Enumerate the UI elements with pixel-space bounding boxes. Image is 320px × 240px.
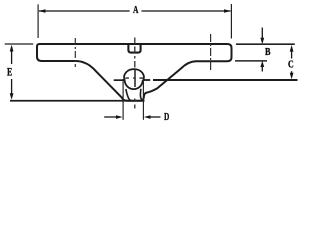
left seat stub <box>114 79 125 81</box>
bracket body outline <box>37 44 232 101</box>
dim A line left segment <box>39 10 130 12</box>
dim A arrow left <box>38 9 45 12</box>
saddle pocket arc under circle <box>125 80 143 89</box>
dim A arrow right <box>224 9 231 12</box>
dim D right tail with arrow (points left) <box>149 116 161 118</box>
dim D extension line right <box>142 80 144 120</box>
svg-text:A: A <box>133 4 139 16</box>
svg-text:D: D <box>164 111 169 123</box>
svg-text:C: C <box>288 60 294 71</box>
centerline hole left x75 <box>74 38 76 67</box>
dim D left tail with arrow (points right) <box>104 116 117 118</box>
svg-text:B: B <box>265 46 271 58</box>
dim A extension line right <box>230 4 232 39</box>
dim E lower segment with down arrow <box>11 79 13 96</box>
dim E top extension line <box>5 43 34 45</box>
horizontal centerline through bar <box>125 77 143 79</box>
dim B lower arrow (up) <box>261 64 263 72</box>
dim C lower arrow (down) <box>291 71 293 75</box>
vertical centerline through circle (dash-dot segments) <box>134 38 136 109</box>
saddle pocket left wall <box>126 89 131 101</box>
dim B upper arrow (down) <box>261 28 263 42</box>
dim E upper segment with up arrow <box>11 47 13 64</box>
dim C upper arrow (up) <box>291 50 293 59</box>
svg-text:E: E <box>7 65 12 79</box>
bar (round rod) upper arc <box>124 69 144 80</box>
dim D extension line left <box>122 79 124 120</box>
right seat line <box>143 79 151 81</box>
dim A extension line left <box>37 4 39 38</box>
centerline hole right x210.5 <box>210 34 212 70</box>
top center notch <box>128 45 140 53</box>
left ground line <box>10 100 145 102</box>
dim A line right segment <box>142 10 231 12</box>
saddle pocket right wall <box>140 89 142 101</box>
top right extension line <box>236 43 295 45</box>
bottom right extension line (bar bottom) <box>235 60 267 62</box>
